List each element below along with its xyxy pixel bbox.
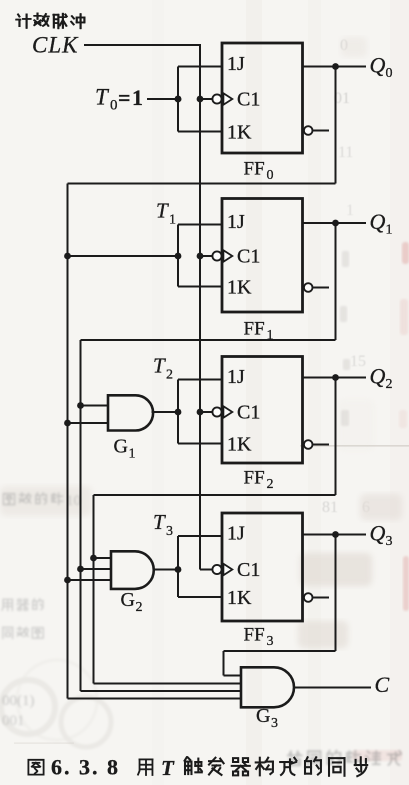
svg-text:1J: 1J xyxy=(227,366,245,388)
svg-text:Q: Q xyxy=(370,209,386,234)
svg-text:1K: 1K xyxy=(227,122,252,144)
svg-text:3: 3 xyxy=(386,534,393,549)
svg-text:11: 11 xyxy=(338,144,353,161)
svg-text:1: 1 xyxy=(129,447,136,462)
svg-text:G: G xyxy=(114,436,128,458)
svg-text:C1: C1 xyxy=(237,89,260,111)
svg-text:C1: C1 xyxy=(237,559,260,581)
svg-text:2: 2 xyxy=(166,368,173,383)
svg-text:Q: Q xyxy=(370,521,386,546)
svg-text:15: 15 xyxy=(350,353,366,370)
svg-text:1: 1 xyxy=(386,223,393,238)
svg-text:T: T xyxy=(161,756,175,780)
svg-text:FF: FF xyxy=(244,625,265,646)
svg-text:6. 3. 8: 6. 3. 8 xyxy=(51,755,120,780)
svg-text:FF: FF xyxy=(244,159,265,180)
svg-text:1J: 1J xyxy=(227,53,245,75)
svg-text:G: G xyxy=(121,589,135,611)
svg-text:C1: C1 xyxy=(237,402,260,424)
svg-text:C: C xyxy=(375,672,390,697)
svg-text:1: 1 xyxy=(267,328,274,343)
svg-text:1K: 1K xyxy=(227,434,252,456)
svg-text:1K: 1K xyxy=(227,277,252,299)
svg-text:Q: Q xyxy=(370,364,386,389)
svg-text:1K: 1K xyxy=(227,587,252,609)
svg-text:1J: 1J xyxy=(227,211,245,233)
svg-text:T: T xyxy=(95,85,110,110)
svg-text:81: 81 xyxy=(322,499,338,516)
svg-text:0: 0 xyxy=(110,98,118,114)
svg-text:3: 3 xyxy=(166,524,173,539)
svg-text:0: 0 xyxy=(386,66,393,81)
svg-text:FF: FF xyxy=(244,468,265,489)
svg-text:0: 0 xyxy=(267,168,274,183)
svg-text:3: 3 xyxy=(267,634,274,649)
svg-text:2: 2 xyxy=(136,600,143,615)
svg-text:2: 2 xyxy=(386,377,393,392)
svg-text:2: 2 xyxy=(267,477,274,492)
svg-text:3: 3 xyxy=(271,716,278,731)
svg-text:1: 1 xyxy=(346,202,354,219)
svg-text:G: G xyxy=(256,705,270,727)
svg-text:T: T xyxy=(156,199,169,223)
svg-text:001: 001 xyxy=(2,713,25,729)
svg-text:1: 1 xyxy=(169,213,176,228)
svg-text:CLK: CLK xyxy=(32,33,79,58)
svg-text:FF: FF xyxy=(244,319,265,340)
svg-text:T: T xyxy=(153,510,166,534)
svg-text:Q: Q xyxy=(370,53,386,78)
svg-text:1J: 1J xyxy=(227,523,245,545)
svg-text:=1: =1 xyxy=(118,85,145,110)
svg-text:C1: C1 xyxy=(237,246,260,268)
svg-text:T: T xyxy=(153,354,166,378)
svg-text:00(1): 00(1) xyxy=(2,693,35,709)
